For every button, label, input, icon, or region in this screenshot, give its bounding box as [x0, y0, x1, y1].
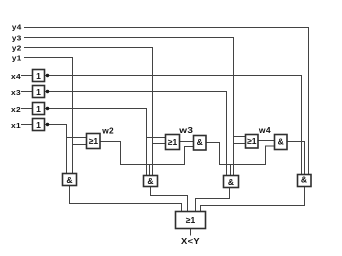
wire net y4 [24, 28, 309, 175]
inverter N3 (x2) box [33, 103, 45, 115]
svg-text:&: & [278, 136, 284, 146]
svg-text:≥1: ≥1 [247, 136, 257, 146]
svg-text:≥1: ≥1 [186, 215, 196, 225]
wire net y2 [24, 48, 153, 176]
wire branch w2 down to AND A4 [149, 165, 151, 176]
svg-text:X<Y: X<Y [181, 237, 200, 246]
or-gate O2 (w3) box [166, 135, 180, 150]
wire net y3 [24, 38, 234, 176]
svg-text:w2: w2 [101, 126, 114, 136]
wire net not-x3 [45, 92, 227, 176]
svg-text:&: & [228, 177, 234, 187]
svg-text:1: 1 [36, 104, 41, 114]
wire AND A2 output to AND A6 [287, 142, 305, 175]
wire net not-x2 [45, 109, 147, 176]
wire x3 input to inverter [21, 91, 33, 93]
svg-text:1: 1 [36, 87, 41, 97]
wire branch not-x2 to OR w3 upper input [147, 137, 166, 139]
and-gate A3 (¬x1·y1) box [63, 174, 77, 186]
wire branch y3 to OR w4 upper input [234, 136, 246, 138]
svg-text:&: & [301, 175, 307, 185]
and-gate A4 (w2·¬x2·y2) box [144, 176, 158, 187]
svg-text:&: & [66, 175, 72, 185]
wire AND A5 output to final OR input 3 [196, 188, 230, 212]
wire x1 input to inverter [21, 124, 33, 126]
wire AND A6 output to final OR input 4 [201, 187, 305, 212]
svg-text:y3: y3 [12, 34, 22, 43]
and-gate A1 (w2·w3) box [194, 136, 207, 151]
svg-text:x3: x3 [11, 88, 21, 97]
inverter N2 (x3) box [33, 86, 45, 98]
svg-text:y1: y1 [12, 54, 22, 63]
and-gate A5 (w2w3·¬x3·y3) box [224, 176, 239, 188]
svg-text:y4: y4 [12, 23, 22, 32]
wire branch not-x1 to OR w2 upper input [67, 137, 87, 139]
wire AND A4 output to final OR input 2 [151, 187, 188, 212]
svg-text:1: 1 [36, 120, 41, 130]
junction dot not-x3 [46, 90, 49, 93]
svg-text:&: & [197, 137, 203, 147]
wire branch y2 to OR w3 lower input [153, 143, 166, 145]
wire branch y3 to OR w4 lower input [234, 143, 246, 145]
svg-text:w3: w3 [178, 125, 193, 135]
svg-text:x4: x4 [11, 72, 22, 81]
inverter N4 (x1) box [33, 119, 45, 131]
svg-text:≥1: ≥1 [168, 137, 178, 147]
svg-text:x1: x1 [11, 121, 21, 130]
wire net w2 from OR w2 output to AND A1 lower input [100, 142, 194, 165]
wire net not-x4 [45, 76, 302, 175]
wire x4 input to inverter [21, 75, 33, 77]
svg-text:&: & [147, 176, 153, 186]
svg-text:≥1: ≥1 [89, 136, 99, 146]
junction dot not-x1 [46, 123, 49, 126]
wire net y1 [24, 58, 73, 174]
svg-text:y2: y2 [12, 44, 22, 53]
wire net not-x1 [45, 125, 67, 174]
svg-text:x2: x2 [11, 105, 21, 114]
or-gate O1 (w2) box [87, 134, 101, 149]
wire AND A3 output to final OR input 1 [70, 186, 182, 212]
wire OR w4 output to AND A2 upper input [258, 140, 275, 142]
or-gate O4 (final X&lt;Y) box [176, 212, 206, 229]
wire OR w3 output to AND A1 upper input [180, 141, 194, 143]
wire final OR output stub [190, 229, 192, 236]
and-gate A6 (w2w3w4·¬x4·y4) box [298, 175, 312, 187]
and-gate A2 (w2·w3·w4) box [275, 135, 288, 150]
wire x2 input to inverter [21, 108, 33, 110]
svg-text:w4: w4 [258, 125, 271, 135]
or-gate O3 (w4) box [246, 135, 259, 149]
wire branch w2w3 down to AND A5 [230, 165, 232, 176]
junction dot not-x2 [46, 107, 49, 110]
wire net w2w3 from AND A1 output to AND A2 lower input [206, 143, 275, 165]
inverter N1 (x4) box [33, 70, 45, 82]
svg-text:1: 1 [36, 71, 41, 81]
wire branch y1 to OR w2 lower input [73, 144, 87, 146]
junction dot not-x4 [46, 74, 49, 77]
